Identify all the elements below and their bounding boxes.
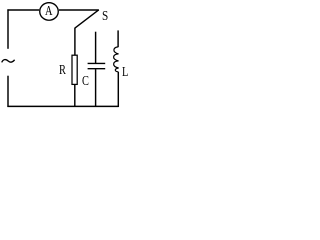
- switch S blade: [75, 10, 99, 29]
- capacitor C top plate: [88, 62, 106, 64]
- ammeter label A: [45, 5, 52, 19]
- switch label S: [102, 10, 108, 24]
- AC source ~ symbol: [2, 60, 15, 63]
- wire top horizontal left segment: [7, 9, 39, 11]
- inductor label L: [122, 66, 128, 80]
- wire C branch upper: [95, 32, 97, 64]
- wire top horizontal right segment: [59, 9, 99, 11]
- wire R branch upper: [74, 28, 76, 55]
- ammeter A1 circle: [40, 3, 59, 21]
- resistor R body: [72, 55, 77, 84]
- wire left vertical lower segment: [7, 76, 9, 107]
- wire R branch lower: [74, 84, 76, 107]
- wire L branch upper: [117, 30, 119, 47]
- wire left vertical upper segment: [7, 9, 9, 48]
- resistor label R: [59, 64, 66, 78]
- wire C branch lower: [95, 69, 97, 107]
- wire L branch lower: [117, 72, 119, 107]
- capacitor C bottom plate: [88, 68, 106, 70]
- wire bottom horizontal: [7, 105, 118, 107]
- capacitor label C: [82, 75, 89, 89]
- inductor L coil: [114, 47, 119, 72]
